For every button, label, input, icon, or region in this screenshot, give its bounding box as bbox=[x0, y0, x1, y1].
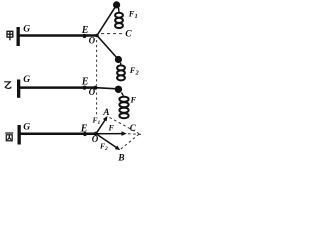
spring F1 hook bbox=[118, 8, 120, 13]
pulley P3 (yi) bbox=[115, 86, 122, 93]
vector F1 arrow O to A (bing) bbox=[96, 116, 108, 134]
pulley P2 (between jia and yi) bbox=[115, 56, 122, 63]
label bing (丙) bbox=[5, 133, 13, 141]
string O to upper pulley (jia) bbox=[97, 5, 117, 36]
svg-text:G: G bbox=[23, 25, 30, 35]
wall (jia) bbox=[17, 27, 20, 46]
wall (yi) bbox=[17, 80, 20, 98]
svg-text:C: C bbox=[130, 123, 137, 133]
spring F1 bbox=[115, 13, 123, 28]
rod G (yi) bbox=[20, 86, 96, 89]
svg-text:G: G bbox=[23, 75, 30, 85]
wall (bing) bbox=[18, 125, 21, 145]
rod G (bing) bbox=[21, 133, 97, 136]
label yi (乙) bbox=[4, 82, 11, 89]
string O to lower pulley (jia) bbox=[97, 36, 118, 60]
spring F2 hook bbox=[120, 63, 123, 66]
spring F bbox=[119, 97, 128, 119]
point E dot (bing) bbox=[83, 132, 87, 136]
vertical dashed line O(yi) to bing bbox=[96, 93, 98, 115]
dashed extension of F toward C corner (bing) bbox=[128, 133, 142, 136]
node O (jia) bbox=[95, 34, 98, 37]
dashed line B to C corner (bing) bbox=[121, 134, 140, 149]
svg-text:O: O bbox=[89, 36, 96, 46]
svg-text:B: B bbox=[117, 154, 124, 162]
vertical dashed line O(jia) to O(yi) bbox=[96, 40, 98, 86]
pulley P1 (jia upper) bbox=[113, 1, 120, 8]
string O to pulley P3 (yi) bbox=[96, 88, 118, 89]
label jia (甲) bbox=[7, 31, 13, 40]
svg-text:A: A bbox=[102, 108, 109, 118]
node O (bing) bbox=[94, 132, 98, 136]
node O (yi) bbox=[93, 86, 97, 90]
svg-text:C: C bbox=[125, 30, 132, 40]
dashed line O to C (jia) bbox=[101, 33, 124, 35]
rod G (jia) bbox=[20, 34, 98, 37]
spring F hook bbox=[122, 93, 124, 97]
svg-text:F: F bbox=[130, 94, 137, 104]
vector F2 arrow O to B (bing) bbox=[96, 134, 120, 150]
dashed line A to C corner (bing) bbox=[110, 118, 140, 134]
spring F2 bbox=[117, 65, 125, 80]
point E dot (jia) bbox=[82, 34, 86, 38]
svg-text:G: G bbox=[23, 123, 30, 133]
vector F arrow O to C direction (bing) bbox=[96, 131, 127, 136]
svg-text:F: F bbox=[108, 124, 115, 133]
point E dot (yi) bbox=[82, 86, 86, 90]
